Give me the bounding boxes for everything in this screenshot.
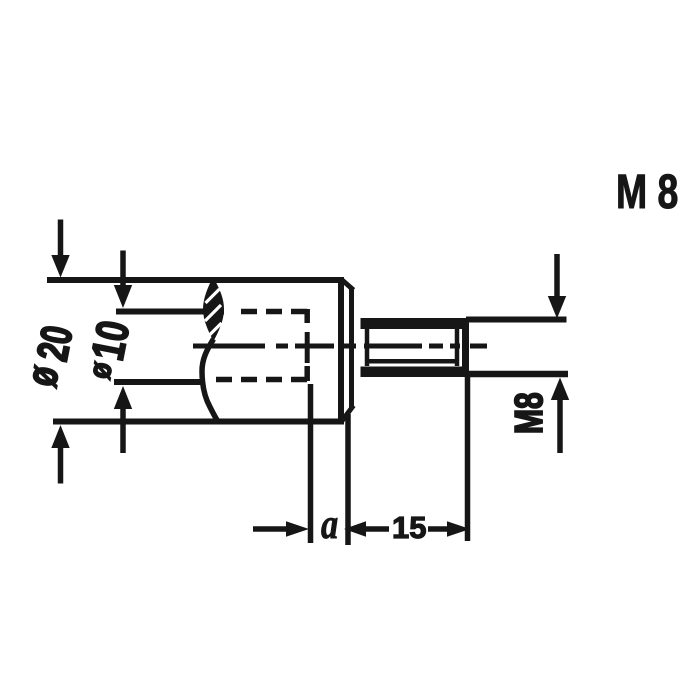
stud M8 top crest bar <box>361 318 470 329</box>
svg-text:15: 15 <box>392 510 426 545</box>
svg-text:10: 10 <box>81 316 139 364</box>
extension line from bore end (dimension a) <box>308 384 314 543</box>
label Ø20 (rotated) <box>17 322 82 390</box>
stud thread runout line <box>455 329 460 366</box>
svg-text:M8: M8 <box>508 392 551 434</box>
Ø10 dimension top arrowhead <box>114 285 132 308</box>
stud bottom extension line to the right <box>466 371 568 378</box>
M 8 callout arrowhead <box>548 296 566 319</box>
extension line from cylinder face (dimensions a and 15) <box>345 414 351 545</box>
extension line from stud end (dimension 15) <box>465 377 471 541</box>
cylinder bottom outline (extended left as extension line) <box>53 419 344 425</box>
svg-text:a: a <box>321 502 338 548</box>
Ø10 top extension line <box>116 309 224 315</box>
bore end hidden line bottom dash <box>304 366 310 381</box>
dimension 15 right arrowhead (pointing right) <box>447 521 470 537</box>
svg-text:20: 20 <box>28 322 82 365</box>
cylinder right face line (chamfer start circle) <box>338 277 344 424</box>
bore end centerline cross tick <box>305 332 310 363</box>
break curve (broken-out section boundary) <box>202 339 217 420</box>
Ø10 dimension bottom arrowhead <box>114 386 132 409</box>
centerline (dash-dot axis) <box>193 344 487 349</box>
Ø10 dimension top arrow line <box>120 251 126 287</box>
svg-text:ø: ø <box>82 359 119 382</box>
stud top extension line to the right <box>466 317 567 323</box>
M8 thread dimension arrow line <box>557 399 563 453</box>
chamfer slant top corner <box>342 280 354 291</box>
M8 thread dimension arrowhead (pointing up) <box>551 378 569 401</box>
stud thread root line bottom <box>367 359 457 364</box>
bore Ø10 hidden line bottom (dashed) <box>210 377 307 383</box>
Ø20 dimension bottom arrowhead <box>51 425 69 448</box>
Ø10 dimension bottom arrow line <box>120 409 126 453</box>
chamfer slant bottom corner <box>342 406 354 422</box>
break lens hatch stroke 3 <box>208 323 222 337</box>
break lens (partial section, hatched) <box>203 277 224 341</box>
Ø20 dimension top arrow line <box>58 220 64 257</box>
cylinder top outline (Ø20 body, extended left as extension line) <box>47 277 344 283</box>
M 8 callout arrow line (top right) <box>554 254 560 297</box>
label Ø10 (rotated) <box>81 316 139 381</box>
break lens hatch stroke 1 <box>206 289 220 303</box>
break lens hatch stroke 2 <box>205 305 221 321</box>
stud thread root left vertical <box>365 329 370 366</box>
bore end hidden line top dash <box>304 309 310 323</box>
svg-text:ø: ø <box>17 362 68 390</box>
dimension 15 left tail <box>365 526 389 532</box>
stud end face line <box>462 318 469 377</box>
cylinder end face line (chamfer edge) <box>349 288 354 408</box>
dimension 15 left arrowhead (pointing left) <box>344 521 366 537</box>
stud M8 bottom crest bar <box>361 367 470 378</box>
svg-text:M 8: M 8 <box>616 165 678 219</box>
Ø20 dimension bottom arrow line <box>58 447 64 484</box>
bore Ø10 hidden line top (dashed) <box>237 309 307 315</box>
dimension a line left tail <box>253 526 287 532</box>
Ø20 dimension top arrowhead <box>51 255 69 278</box>
dimension a left arrowhead (pointing right) <box>286 521 309 537</box>
Ø10 bottom extension line <box>114 379 203 385</box>
dimension 15 right tail <box>428 526 448 532</box>
